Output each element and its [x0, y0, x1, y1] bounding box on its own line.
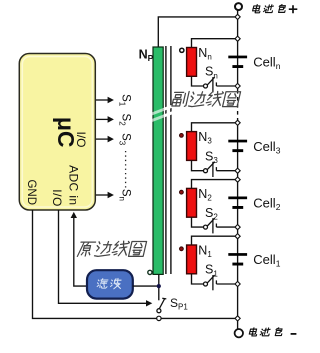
node bus tap top cell n — [235, 36, 240, 41]
wire ADC in from filter — [74, 217, 87, 286]
wire switch S2 to bus — [216, 226, 237, 228]
wire GND to bottom bus — [33, 210, 238, 318]
label filter — [97, 278, 122, 288]
label primary winding — [77, 241, 146, 256]
wire switch S1 to bus — [216, 283, 237, 285]
switch Sn — [204, 77, 217, 92]
node polarity dot N1 — [180, 247, 184, 251]
svg-text:GND: GND — [25, 179, 37, 205]
inductor Np primary winding — [153, 47, 163, 274]
switch S1 — [204, 275, 217, 290]
node bus tap bottom cell 2 — [235, 225, 240, 230]
wire arrow S2 control — [96, 116, 114, 123]
wire arrow Sn control — [96, 192, 114, 199]
wire core line 1 — [165, 46, 167, 274]
wire switch S3 to bus — [216, 170, 237, 172]
wire primary bottom to SP1 — [158, 274, 160, 300]
svg-text:I/O: I/O — [50, 189, 64, 207]
wire main bus dashed continuation — [237, 90, 239, 122]
wire filter to primary — [133, 285, 159, 287]
dotted ellipsis — [125, 151, 127, 188]
microcontroller U1 — [19, 54, 95, 211]
wire arrow S1 control — [96, 97, 114, 104]
wire switch Sn to bus — [216, 85, 237, 87]
inductor N3 secondary winding — [187, 132, 197, 161]
node bus tap bottom cell n — [235, 83, 240, 88]
inductor N2 secondary winding — [187, 188, 197, 217]
wire N3 bottom — [192, 160, 204, 170]
battery Cell3 — [228, 140, 247, 152]
label secondary winding — [171, 91, 240, 106]
wire arrow ADC head — [71, 212, 77, 218]
wire N1 top — [192, 236, 238, 245]
node bus tap bottom cell 3 — [235, 168, 240, 173]
wire break stripe 2 — [147, 110, 177, 124]
node battery pack - terminal — [235, 329, 243, 337]
node polarity dot primary — [148, 270, 152, 274]
svg-text:I/O: I/O — [74, 131, 88, 147]
switch SP1 — [157, 298, 166, 312]
wire Nn bottom — [192, 76, 204, 86]
wire Nn top — [192, 39, 238, 48]
wire N2 bottom — [192, 217, 204, 227]
wire main bus upper — [237, 10, 239, 90]
inductor Nn secondary winding — [187, 48, 197, 77]
node SP1 bottom — [157, 316, 161, 320]
node bus tap Np — [235, 14, 240, 19]
label battery pack minus — [249, 328, 297, 336]
wire N3 top — [192, 123, 238, 132]
wire main bus lower — [237, 122, 239, 330]
node bus tap top cell 3 — [235, 120, 240, 125]
node battery pack + terminal — [235, 3, 242, 10]
node bus tap bottom cell 1 — [235, 281, 240, 286]
node polarity dot N3 — [180, 134, 184, 138]
filter block U2 — [87, 270, 133, 298]
switch S2 — [204, 218, 217, 233]
node junction filter primary — [157, 284, 161, 288]
battery Cell2 — [228, 197, 247, 209]
wire core line 2 — [170, 46, 172, 274]
node bus tap top cell 2 — [235, 177, 240, 182]
wire N1 bottom — [192, 274, 204, 284]
wire break stripe 1 — [147, 103, 177, 117]
battery Cell1 — [228, 253, 247, 265]
wire arrow S3 control — [96, 136, 114, 143]
wire N2 top — [192, 180, 238, 189]
switch S3 — [204, 162, 217, 177]
battery Celln — [228, 56, 247, 68]
node bus tap bottom — [235, 316, 240, 321]
node bus tap top cell 1 — [235, 234, 240, 239]
node polarity dot N2 — [180, 190, 184, 194]
svg-text:ADC in: ADC in — [67, 165, 81, 205]
wire I/O control to SP1 — [59, 210, 147, 303]
inductor N1 secondary winding — [187, 245, 197, 274]
wire arrow SP1 control head — [146, 300, 152, 306]
node polarity dot Nn — [180, 48, 184, 52]
label battery pack plus — [252, 5, 297, 14]
wire primary top — [158, 17, 237, 47]
